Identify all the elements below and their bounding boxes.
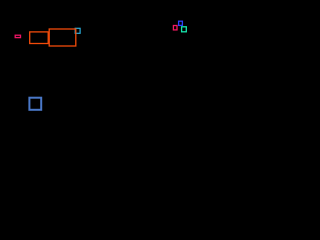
box pink-dash [15,35,20,37]
box orange-2 [49,29,76,46]
box blue-small [179,21,183,25]
box crimson [173,26,177,30]
box orange-1 [30,32,49,44]
box blue-big [29,98,41,110]
box green [182,27,187,32]
box cyan [75,28,80,33]
